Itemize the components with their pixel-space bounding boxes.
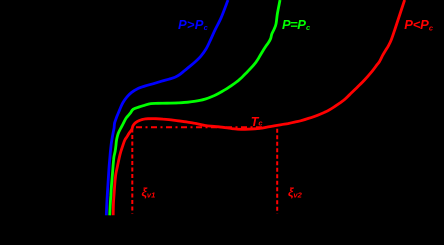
- curve P>Pc (blue isobar): [106, 0, 228, 215]
- curve P<Pc (red isobar): [113, 0, 404, 215]
- dropline xi_v2 (dashed vertical): [276, 129, 278, 214]
- dropline xi_v1 (dashed vertical): [131, 129, 133, 214]
- svg-text:P=P: P=P: [282, 17, 306, 32]
- curve P=Pc (green critical isobar): [110, 0, 280, 215]
- Tc level dash-dot line: [136, 126, 271, 128]
- svg-text:P<P: P<P: [404, 17, 429, 32]
- svg-text:P>P: P>P: [178, 17, 204, 32]
